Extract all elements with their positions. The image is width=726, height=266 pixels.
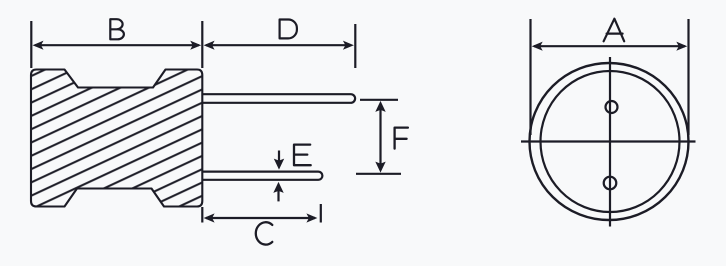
horizontal center line: [521, 140, 696, 142]
arrowhead B right: [190, 41, 201, 50]
extension line left of A: [529, 19, 531, 135]
vertical center line: [609, 57, 611, 227]
arrowhead C left: [204, 213, 215, 222]
pin hole top (top view): [606, 101, 618, 113]
arrowhead D left: [204, 41, 215, 50]
label A: [604, 19, 625, 42]
lead 1 (top pin, side view): [203, 94, 356, 103]
extension line left of B: [30, 21, 32, 68]
arrowhead A right: [676, 42, 687, 51]
arrowhead F up: [375, 101, 385, 112]
lead 2 (bottom pin, side view): [203, 172, 323, 180]
dimension line B: [35, 44, 199, 46]
arrowhead B left: [33, 41, 44, 50]
inductor body (hatched drum core, side view): [31, 70, 202, 207]
arrowhead A left: [532, 42, 543, 51]
extension line between B and D: [201, 21, 203, 68]
extension line right of C: [320, 204, 322, 223]
extension line bottom of F: [356, 173, 401, 175]
dimension line F: [379, 104, 381, 170]
pin hole bottom (top view): [604, 177, 617, 190]
label C: [256, 222, 273, 244]
arrow E lower (pointing up): [277, 189, 279, 201]
label B: [110, 19, 124, 39]
extension line right of A: [687, 19, 689, 135]
arrow E upper (pointing down): [278, 151, 280, 163]
label E: [294, 145, 311, 166]
outer flange circle (top view): [530, 63, 689, 220]
arrowhead F down: [375, 162, 385, 173]
label D: [280, 20, 297, 39]
extension line top of F: [360, 99, 398, 101]
inner core circle (top view): [541, 71, 680, 212]
label F: [395, 128, 408, 149]
extension line right of D: [354, 24, 356, 68]
extension line below body for C: [201, 207, 203, 223]
dimension line D: [206, 44, 351, 46]
dimension line A: [534, 45, 685, 47]
dimension line C: [206, 217, 315, 219]
arrowhead C right: [306, 213, 317, 222]
arrowhead D right: [343, 41, 354, 50]
